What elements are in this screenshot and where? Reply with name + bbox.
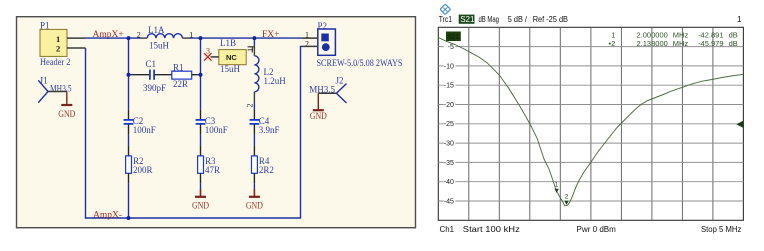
- wire C3 to R3: [200, 134, 202, 146]
- svg-text:-45: -45: [444, 198, 454, 205]
- svg-text:2: 2: [56, 43, 60, 53]
- svg-text:Pwr 0 dBm: Pwr 0 dBm: [577, 225, 617, 234]
- pin 1 of R4: [253, 146, 255, 156]
- marker table: [609, 30, 738, 48]
- wire R2 to bus: [128, 183, 130, 218]
- svg-text:Stop 5 MHz: Stop 5 MHz: [701, 225, 741, 234]
- wire AmpX+ top: [85, 37, 140, 39]
- svg-text:J2: J2: [336, 75, 344, 85]
- y axis labels (inside plot, on gapped gridlines): [444, 42, 456, 205]
- svg-text:Start 100 kHz: Start 100 kHz: [463, 225, 520, 234]
- svg-text:C1: C1: [146, 59, 157, 69]
- pin 2 of C4: [253, 124, 255, 134]
- pin 2 of C2: [128, 124, 130, 134]
- pin 3 of L1B: [211, 56, 219, 58]
- svg-text:Ref -25 dB: Ref -25 dB: [533, 15, 568, 24]
- svg-text:5 dB /: 5 dB /: [508, 15, 528, 24]
- wire AmpX- bus: [86, 46, 303, 218]
- pin 1 of L1A: [182, 37, 190, 39]
- pin 1 of C3: [200, 109, 202, 119]
- pin 1 of C4: [253, 109, 255, 119]
- wire top mid: [190, 37, 302, 39]
- svg-text:L1A: L1A: [148, 25, 165, 35]
- svg-text:3: 3: [206, 46, 210, 55]
- svg-text:2R2: 2R2: [259, 165, 274, 175]
- capacitor C3: [196, 116, 228, 135]
- wire branch2 vertical: [200, 38, 202, 109]
- connector P1: [40, 20, 71, 67]
- svg-text:1: 1: [737, 15, 742, 24]
- svg-text:-35: -35: [444, 160, 454, 167]
- svg-text:390pF: 390pF: [143, 83, 166, 93]
- svg-text:1: 1: [56, 34, 60, 44]
- svg-text:2: 2: [137, 31, 141, 40]
- capacitor C4: [250, 116, 280, 135]
- svg-text:GND: GND: [58, 109, 75, 119]
- svg-text:dB Mag: dB Mag: [479, 15, 500, 24]
- ground under R3: [192, 173, 209, 210]
- marker 2: [564, 194, 568, 205]
- S21 badge in plot: [446, 32, 461, 42]
- svg-text:-30: -30: [444, 141, 454, 148]
- mounting hole J2: [309, 75, 346, 103]
- ground under R4: [246, 173, 263, 210]
- svg-text:1.2uH: 1.2uH: [264, 76, 287, 86]
- svg-text:L1B: L1B: [220, 38, 236, 48]
- wire branch3 top: [253, 38, 255, 45]
- header Trc1: [439, 15, 742, 24]
- svg-text:15uH: 15uH: [220, 64, 241, 74]
- pin 1 of L2: [253, 45, 255, 56]
- svg-text:-5: -5: [448, 44, 454, 51]
- svg-text:S21: S21: [460, 15, 475, 24]
- svg-text:100nF: 100nF: [205, 125, 228, 135]
- reference level triangle: [736, 121, 743, 128]
- inductor L1A: [137, 25, 194, 51]
- svg-text:•2: •2: [609, 39, 616, 48]
- svg-text:-10: -10: [444, 63, 454, 70]
- svg-text:GND: GND: [246, 200, 263, 210]
- inductor L2: [246, 48, 287, 108]
- svg-text:dB: dB: [729, 39, 738, 48]
- ground under J2: [310, 93, 327, 121]
- svg-text:FX+: FX+: [262, 30, 280, 40]
- svg-text:-15: -15: [444, 83, 454, 90]
- junction dots: [127, 36, 257, 220]
- svg-text:GND: GND: [192, 200, 209, 210]
- svg-text:-40: -40: [444, 179, 454, 186]
- pin 1 of R2: [128, 146, 130, 156]
- pin 1 of L1B: [248, 47, 255, 53]
- svg-text:47R: 47R: [205, 165, 220, 175]
- svg-text:AmpX-: AmpX-: [93, 210, 122, 220]
- trace S21 curve: [438, 38, 743, 206]
- svg-text:-20: -20: [444, 102, 454, 109]
- plot border: [438, 27, 743, 220]
- connector P2: [305, 21, 335, 56]
- svg-text:3.9nF: 3.9nF: [259, 125, 280, 135]
- pin 1 of P1: [67, 37, 85, 39]
- pin 1 of R3: [200, 146, 202, 156]
- pin 2 of P2: [302, 45, 318, 47]
- R&S logo: [440, 4, 450, 14]
- marker 1: [554, 181, 558, 193]
- pin 1 of P2: [302, 37, 318, 39]
- svg-text:-45.979: -45.979: [698, 39, 723, 48]
- svg-text:P1: P1: [40, 20, 50, 30]
- wire branch1 vertical: [128, 38, 130, 109]
- resistor R1: [172, 63, 201, 89]
- svg-text:-25: -25: [444, 121, 454, 128]
- bottom labels: [440, 225, 742, 234]
- grid vertical lines: [469, 27, 713, 220]
- pin 2 of C3: [200, 124, 202, 134]
- wire C2 to R2: [128, 134, 130, 146]
- svg-text:15uH: 15uH: [149, 41, 170, 51]
- svg-text:NC: NC: [226, 53, 237, 62]
- svg-text:SCREW-5.0/5.08 2WAYS: SCREW-5.0/5.08 2WAYS: [317, 58, 403, 68]
- inductor L1B (NC): [206, 38, 246, 74]
- svg-text:Ch1: Ch1: [440, 225, 455, 234]
- svg-text:GND: GND: [310, 111, 327, 121]
- svg-text:1: 1: [246, 48, 255, 52]
- svg-text:R1: R1: [173, 63, 184, 73]
- mounting hole J1: [38, 75, 72, 102]
- grid horizontal lines: [438, 47, 743, 201]
- pin 2 of L1A: [140, 37, 147, 39]
- svg-text:200R: 200R: [133, 165, 153, 175]
- resistor R2: [126, 156, 153, 175]
- svg-text:Header 2: Header 2: [40, 57, 71, 67]
- schematic sheet: [17, 17, 416, 228]
- svg-text:MHz: MHz: [673, 39, 689, 48]
- pin 2 of P1: [67, 47, 86, 49]
- svg-text:22R: 22R: [173, 79, 188, 89]
- resistor R3: [198, 156, 220, 175]
- svg-text:1: 1: [555, 181, 559, 188]
- svg-text:Trc1: Trc1: [439, 15, 453, 24]
- svg-text:2.138000: 2.138000: [637, 39, 668, 48]
- pin 1 of C2: [128, 109, 130, 119]
- svg-text:100nF: 100nF: [133, 125, 156, 135]
- svg-text:P2: P2: [318, 21, 328, 31]
- ground under J1: [58, 92, 75, 120]
- wire branch3 mid: [253, 103, 255, 109]
- svg-text:S21: S21: [448, 34, 460, 41]
- capacitor C1: [129, 59, 172, 93]
- wire C4 to R4: [253, 134, 255, 146]
- svg-text:2: 2: [565, 194, 569, 201]
- resistor R4: [252, 156, 274, 175]
- capacitor C2: [124, 116, 156, 135]
- pin 2 of R2: [128, 173, 130, 183]
- svg-text:2: 2: [246, 104, 255, 108]
- pin 2 of L2: [253, 92, 255, 103]
- no-connect X on pin 3: [204, 53, 212, 61]
